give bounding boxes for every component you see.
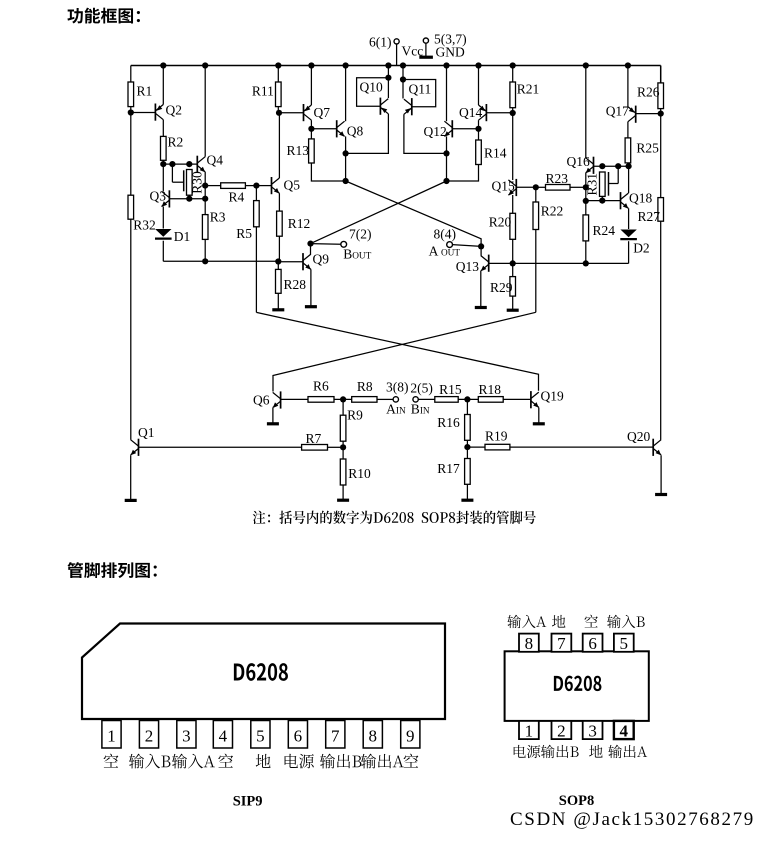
node bus Q14 <box>475 62 481 68</box>
svg-text:2: 2 <box>557 722 566 741</box>
wire R11 top <box>277 66 279 83</box>
transistor Q10 <box>360 80 389 115</box>
ground Q13 emitter <box>475 271 487 308</box>
SIP9 pin 5 box <box>251 721 270 749</box>
wire R17 top lead <box>466 447 468 458</box>
SOP8 pin 6 box <box>583 634 603 653</box>
BIN terminal <box>413 397 435 402</box>
resistor R26 <box>637 83 664 109</box>
node R25/Q18 node <box>626 163 632 169</box>
svg-text:R16: R16 <box>437 415 460 430</box>
SIP9 pin label 地 <box>256 754 271 768</box>
wire Q16-Q18 vertical <box>585 187 587 201</box>
node R3 bottom node <box>202 258 208 264</box>
wire Q17 base <box>636 113 661 115</box>
resistor R18 <box>478 382 503 402</box>
wire Q12 collector to bus <box>446 66 448 122</box>
resistor R29 <box>490 277 516 297</box>
resistor R2 <box>161 135 184 161</box>
svg-text:AOUT: AOUT <box>429 244 461 259</box>
resistor R17 <box>437 459 470 485</box>
svg-text:R27: R27 <box>638 209 661 224</box>
wire R14 bottom hook <box>447 165 479 182</box>
SIP9 pin label 空 <box>104 754 119 768</box>
SIP9 pin 7 box <box>326 721 345 749</box>
resistor R20 <box>489 213 516 239</box>
ground Q19 emitter <box>533 408 545 424</box>
wire R25 bottom <box>627 163 630 166</box>
resistor R22 <box>533 202 563 230</box>
svg-text:R26: R26 <box>637 85 660 100</box>
SOP8 top label 输入B <box>607 615 645 628</box>
svg-text:Q9: Q9 <box>313 252 330 267</box>
wire R5 top lead <box>255 186 257 201</box>
node R23/Q16 node <box>583 184 589 190</box>
SIP9 pin 6 box <box>288 721 307 749</box>
SIP9 pin label 输入B <box>129 754 171 769</box>
resistor R24 <box>583 215 615 241</box>
SIP9 pin label 电源 <box>285 754 314 769</box>
wire Q12 node down <box>446 153 448 181</box>
wire Q12 base <box>452 128 479 130</box>
wire R4 left lead <box>205 185 221 187</box>
wire Q11 collector top <box>402 66 404 99</box>
ground R17 bottom <box>461 484 473 500</box>
node Q13 collector node <box>478 243 484 249</box>
svg-text:2(5): 2(5) <box>410 381 433 396</box>
resistor R31 <box>584 172 605 196</box>
SOP8 pin 1 box <box>519 721 539 741</box>
svg-text:1: 1 <box>525 722 534 741</box>
wire left rail top <box>130 66 132 83</box>
node Q9 collector node <box>307 241 313 247</box>
svg-text:R28: R28 <box>284 277 307 292</box>
capacitor hook left <box>172 164 183 191</box>
resistor R7 <box>302 431 328 450</box>
wire R22 bottom to diag <box>535 230 537 313</box>
wire top bus <box>131 65 661 67</box>
svg-text:GND: GND <box>436 45 465 60</box>
node bus Q4 <box>202 62 208 68</box>
transistor Q15 <box>492 179 517 197</box>
svg-text:R32: R32 <box>133 217 156 232</box>
wire R28 top lead <box>277 262 279 270</box>
transistor Q7 <box>304 104 331 121</box>
wire R24 top lead <box>585 201 587 215</box>
wire R10 top lead <box>342 447 344 459</box>
SIP9 pin 3 box <box>177 721 196 749</box>
svg-text:Q19: Q19 <box>541 389 564 404</box>
wire R6-R8 lead <box>334 398 352 400</box>
wire R13 top lead <box>310 129 312 139</box>
wire Q18 emitter down <box>628 208 630 229</box>
node hook left <box>169 161 175 167</box>
wire R18-Q19 lead <box>503 398 531 400</box>
resistor R9 <box>340 407 363 441</box>
wire Q12 emitter down <box>446 136 448 153</box>
AOUT terminal <box>447 242 481 248</box>
node bus Q11 <box>400 62 406 68</box>
title 功能框图 <box>67 8 140 24</box>
node R11/Q7/Q5 node <box>276 110 282 116</box>
svg-text:R19: R19 <box>485 429 508 444</box>
wire R16 top lead <box>466 399 468 414</box>
transistor Q18 <box>621 190 653 209</box>
wire diag right-to-left <box>311 181 447 244</box>
svg-text:R4: R4 <box>229 189 245 204</box>
wire R29 top lead <box>512 263 514 276</box>
node R20/R29 node <box>510 260 516 266</box>
node node R2/Q3 <box>160 161 166 167</box>
node R26/Q17 node <box>658 111 664 117</box>
transistor Q1 <box>131 425 155 456</box>
resistor R15 <box>435 382 462 402</box>
svg-text:R2: R2 <box>168 135 184 150</box>
wire R20 bottom <box>512 239 514 263</box>
svg-text:R29: R29 <box>490 280 513 295</box>
node bus Q7 <box>308 62 314 68</box>
transistor Q2 <box>155 103 182 121</box>
transistor Q5 <box>272 177 301 194</box>
svg-text:Q17: Q17 <box>606 103 629 118</box>
svg-text:D2: D2 <box>633 241 650 256</box>
wire R21 top <box>512 66 514 83</box>
wire Q10 base loop <box>357 78 389 107</box>
node R16/R19/R17 node <box>464 444 470 450</box>
resistor R28 <box>276 269 307 293</box>
resistor R23 <box>546 171 571 190</box>
node bus R21 <box>510 62 516 68</box>
transistor Q13 <box>456 255 489 274</box>
wire Q8 base <box>311 128 336 130</box>
wire R9 top lead <box>342 399 344 415</box>
SOP8 bottom label 地 <box>589 745 603 758</box>
wire R23 left lead <box>536 186 546 188</box>
SOP8 D6208 label <box>554 676 602 692</box>
wire Q7 base <box>279 112 304 114</box>
wire Q4 collector to bus <box>204 66 206 157</box>
resistor R8 <box>352 379 377 402</box>
wire Q16 collector to bus <box>585 66 587 158</box>
title 管脚排列图 <box>67 562 156 578</box>
resistor R19 <box>485 429 510 450</box>
wire Q17 emitter to bus <box>627 66 629 107</box>
GND terminal <box>419 38 433 57</box>
wire Q15 emitter down <box>512 195 514 213</box>
node R12/R28/Q9 node <box>275 258 281 264</box>
node R30 top <box>186 161 192 167</box>
wire R2 bottom <box>162 160 164 164</box>
transistor Q17 <box>606 103 636 123</box>
wire Q2 emitter to R2 <box>162 120 164 137</box>
transistor Q8 <box>337 120 364 138</box>
svg-text:Q2: Q2 <box>166 103 183 118</box>
resistor R10 <box>340 459 371 485</box>
svg-text:6: 6 <box>294 726 303 745</box>
svg-text:Q20: Q20 <box>627 429 650 444</box>
wire Q5 emitter down <box>278 193 280 211</box>
ground Q20 emitter <box>655 455 667 494</box>
wire R15-R18 lead <box>458 398 478 400</box>
SOP8 pin 8 box <box>519 634 539 653</box>
wire Q15 base <box>516 186 536 188</box>
wire Q6 base row <box>281 398 308 400</box>
svg-text:1: 1 <box>107 726 116 745</box>
wire R4 right lead <box>245 185 256 187</box>
wire Q7 emitter to bus <box>310 66 312 106</box>
SIP9 pin 9 box <box>401 721 420 749</box>
resistor R21 <box>510 82 539 108</box>
wire R24 bottom <box>585 241 587 264</box>
wire Q10 collector top <box>387 66 389 99</box>
resistor R1 <box>128 82 152 107</box>
wire Q14 base <box>486 112 512 114</box>
resistor R4 <box>221 183 246 205</box>
wire Q14 collector down <box>478 120 480 129</box>
svg-text:AIN: AIN <box>386 402 406 417</box>
wire Q7 collector down <box>310 120 312 129</box>
wire diag R5-Q19 <box>256 312 538 390</box>
svg-text:Q14: Q14 <box>459 105 482 120</box>
wire left rail lower <box>130 219 132 440</box>
svg-text:Q16: Q16 <box>567 154 590 169</box>
svg-text:3(8): 3(8) <box>386 380 409 395</box>
SIP9 package body <box>82 624 445 720</box>
SIP9 pin label 空 <box>218 754 233 768</box>
svg-text:SIP9: SIP9 <box>233 793 263 809</box>
svg-text:8(4): 8(4) <box>434 226 457 241</box>
wire Q3 emitter down <box>162 207 164 229</box>
svg-text:R5: R5 <box>236 226 252 241</box>
resistor R27 <box>638 198 664 224</box>
svg-text:Q13: Q13 <box>456 259 479 274</box>
SIP9 pin label 输入A <box>172 754 215 769</box>
svg-text:R25: R25 <box>636 140 659 155</box>
capacitor hook right <box>609 166 619 196</box>
SOP8 pin 7 box <box>552 634 572 653</box>
SOP8 pin 2 box <box>552 721 572 741</box>
node R6/R8/R9 node <box>340 396 346 402</box>
node hook right <box>615 163 621 169</box>
wire D2 to node wire <box>628 241 630 263</box>
svg-text:Q12: Q12 <box>424 124 447 139</box>
SOP8 pin 5 box <box>614 634 634 653</box>
svg-text:R7: R7 <box>306 431 322 446</box>
node bus Q16 <box>583 62 589 68</box>
svg-text:R15: R15 <box>439 382 462 397</box>
svg-text:5: 5 <box>620 634 629 653</box>
ground R29 bottom <box>507 296 519 310</box>
transistor Q9 <box>303 252 329 271</box>
wire Q1-R7 wire <box>139 446 302 448</box>
wire D1 to bottom wire <box>162 241 164 262</box>
svg-text:Q18: Q18 <box>629 190 652 205</box>
ground Q1 emitter <box>125 455 137 500</box>
node R31 bottom <box>599 198 605 204</box>
wire Q4 emitter rail <box>204 172 206 215</box>
wire R23 right lead <box>570 186 586 188</box>
transistor Q19 <box>531 389 564 409</box>
SOP8 top label 输入A <box>507 615 546 628</box>
ground R10 bottom <box>337 485 349 500</box>
svg-text:Q5: Q5 <box>284 177 301 192</box>
node R15/R18/R16 node <box>464 396 470 402</box>
svg-text:7(2): 7(2) <box>349 226 372 241</box>
svg-text:8: 8 <box>525 634 534 653</box>
wire Q5 base <box>256 185 271 187</box>
svg-text:R23: R23 <box>546 171 569 186</box>
resistor R25 <box>625 138 659 163</box>
node R7/R9/R10 node <box>340 444 346 450</box>
svg-text:CSDN @Jack15302768279: CSDN @Jack15302768279 <box>510 809 755 830</box>
svg-text:Q8: Q8 <box>347 123 364 138</box>
node right diag node <box>443 178 449 184</box>
node R30 bottom <box>186 196 192 202</box>
svg-text:SOP8: SOP8 <box>559 793 594 809</box>
transistor Q11 <box>404 82 431 116</box>
node bus R11 <box>275 62 281 68</box>
wire left rail mid <box>130 107 132 196</box>
resistor R30 <box>187 170 205 196</box>
node R1 bottom / Q2 base <box>128 109 134 115</box>
wire R21 bottom <box>512 108 514 113</box>
wire R31 bottom lead <box>601 196 603 200</box>
svg-text:Q11: Q11 <box>409 82 432 97</box>
resistor R16 <box>437 415 470 441</box>
svg-text:4: 4 <box>620 722 629 741</box>
svg-text:R9: R9 <box>347 407 363 422</box>
svg-text:Q6: Q6 <box>253 392 270 407</box>
wire y200 wire <box>586 200 621 202</box>
svg-text:R30: R30 <box>189 171 204 194</box>
resistor R12 <box>277 211 311 236</box>
SOP8 bottom label 输出B <box>541 745 579 758</box>
SOP8 bottom label 输出A <box>608 745 647 758</box>
transistor Q3 <box>150 188 170 207</box>
svg-text:R10: R10 <box>348 466 371 481</box>
svg-text:R21: R21 <box>517 82 540 97</box>
resistor R3 <box>202 210 225 240</box>
BOUT terminal <box>311 241 347 247</box>
svg-text:R12: R12 <box>288 216 311 231</box>
svg-text:R18: R18 <box>479 382 502 397</box>
node bus Q2 <box>160 62 166 68</box>
wire Q11 base loop <box>403 80 436 107</box>
ground Q6 emitter <box>267 408 279 424</box>
ground Q9 emitter <box>305 269 317 306</box>
wire diag left-to-right <box>346 181 482 244</box>
resistor R11 <box>252 82 281 107</box>
svg-text:3: 3 <box>182 726 191 745</box>
wire Q5 collector up <box>278 113 280 178</box>
node R4/R5/Q5 node <box>253 183 259 189</box>
wire R11 bottom <box>277 107 279 113</box>
node R24 top node <box>583 198 589 204</box>
svg-text:R31: R31 <box>584 173 599 196</box>
transistor Q12 <box>424 120 453 139</box>
wire R3 bottom <box>204 239 206 261</box>
svg-text:9: 9 <box>406 726 415 745</box>
SIP9 D6208 label <box>234 663 288 681</box>
wire R12 bottom <box>278 236 280 261</box>
note text <box>253 511 536 525</box>
wire R14 top lead <box>478 129 480 140</box>
transistor Q16 <box>567 154 594 174</box>
SIP9 pin 4 box <box>213 721 232 749</box>
SOP8 bottom label 电源 <box>514 745 541 758</box>
wire right rail 2 <box>660 109 662 198</box>
wire Q8 collector to bus <box>345 66 347 122</box>
wire Q15 collector up <box>512 113 514 180</box>
transistor Q4 <box>197 153 223 173</box>
svg-text:Q10: Q10 <box>360 80 383 95</box>
svg-text:D1: D1 <box>174 229 191 244</box>
svg-text:7: 7 <box>331 726 340 745</box>
resistor R14 <box>476 140 507 165</box>
wire R19-Q20 wire <box>510 446 653 448</box>
node R21/Q14/Q15 node <box>510 110 516 116</box>
transistor Q14 <box>459 104 486 121</box>
svg-text:R8: R8 <box>357 379 373 394</box>
wire Q17 collector down <box>627 122 629 138</box>
node R24 bottom node <box>583 260 589 266</box>
svg-text:R3: R3 <box>210 210 226 225</box>
svg-text:R17: R17 <box>437 461 460 476</box>
SIP9 pin label 输出A <box>361 754 404 769</box>
node bus Q12 <box>443 62 449 68</box>
node bus Q17 <box>625 62 631 68</box>
SOP8 pin 3 box <box>583 721 603 741</box>
transistor Q20 <box>627 429 661 456</box>
wire Q3 collector up <box>162 164 164 191</box>
node Q11 box corner <box>400 76 406 82</box>
node Q15/R23/R22 node <box>533 184 539 190</box>
wire R16 bottom lead <box>466 440 468 447</box>
node Q7/Q8/R13 node <box>308 126 314 132</box>
svg-text:R24: R24 <box>593 223 616 238</box>
node Q12/Q11 node <box>443 150 449 156</box>
svg-text:R22: R22 <box>541 203 564 218</box>
wire Q10 emitter down <box>346 114 389 154</box>
svg-text:Q1: Q1 <box>138 425 155 440</box>
SIP9 pin 1 box <box>102 721 121 749</box>
wire Q9 collector up <box>310 244 312 255</box>
wire Q18 collector up <box>628 166 630 193</box>
SOP8 top label 空 <box>585 615 598 628</box>
wire Q8 emitter down <box>345 136 347 153</box>
wire R5 bottom to diag <box>255 227 257 313</box>
wire diag R22-Q6 <box>273 312 536 391</box>
wire Q9 base <box>278 261 303 263</box>
wire R9 bottom lead <box>342 441 344 447</box>
diode D1 <box>155 229 190 244</box>
svg-text:BOUT: BOUT <box>343 246 371 261</box>
transistor Q6 <box>253 391 281 408</box>
node Q10 box corner <box>385 75 391 81</box>
svg-text:8: 8 <box>369 726 378 745</box>
wire Q11 emitter down <box>404 114 447 153</box>
diode D2 <box>620 230 649 256</box>
svg-text:Q15: Q15 <box>492 179 515 194</box>
svg-text:Q4: Q4 <box>207 153 224 168</box>
SOP8 package body <box>505 651 649 721</box>
wire right rail 3 <box>660 221 662 440</box>
resistor R6 <box>308 379 334 403</box>
wire left node wire <box>163 260 278 262</box>
wire Q2 collector to bus <box>162 66 164 105</box>
SOP8 pin 4 box <box>614 721 634 741</box>
SIP9 pin 8 box <box>363 721 382 749</box>
